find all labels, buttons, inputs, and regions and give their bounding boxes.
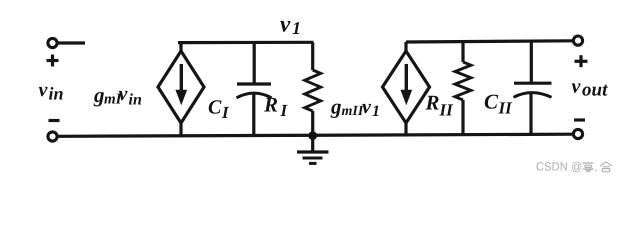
input terminal top-left: [48, 38, 57, 47]
label gmI vin: [93, 83, 142, 109]
wire G1 bottom stub: [179, 122, 182, 136]
label RI: [263, 93, 289, 121]
svg-text:R: R: [263, 93, 278, 117]
svg-text:II: II: [498, 99, 514, 118]
label vout: [572, 76, 609, 101]
wire top rail 2: [406, 41, 573, 42]
svg-text:C: C: [484, 90, 499, 114]
wire bottom rail: [58, 134, 573, 136]
svg-text:g: g: [330, 95, 342, 119]
svg-text:I: I: [221, 103, 230, 122]
controlled source G1 gmI vin: [158, 51, 204, 123]
wire G2 top stub: [404, 42, 407, 52]
controlled source G2 gmII v1: [383, 51, 430, 123]
label vin: [39, 79, 64, 104]
wire top rail 1 (node v1): [178, 41, 314, 44]
svg-text:R: R: [425, 91, 440, 115]
svg-text:g: g: [93, 83, 105, 107]
svg-text:v: v: [119, 83, 129, 105]
svg-text:out: out: [582, 80, 608, 101]
svg-text:II: II: [439, 101, 455, 120]
svg-text:mII: mII: [342, 104, 364, 119]
svg-text:v: v: [572, 76, 582, 98]
svg-text:1: 1: [372, 103, 380, 120]
svg-text:in: in: [49, 84, 64, 104]
watermark CSDN: [536, 160, 612, 174]
capacitor CII: [514, 41, 552, 134]
resistor RII: [455, 42, 471, 135]
svg-text:C: C: [208, 97, 222, 119]
svg-text:in: in: [129, 92, 142, 109]
wire G2 bottom stub: [404, 122, 407, 135]
label RII: [425, 91, 455, 120]
minus sign (output): [574, 118, 585, 121]
wire input top stub: [58, 41, 86, 44]
input terminal bottom-left: [48, 132, 57, 141]
minus sign (input): [49, 119, 60, 122]
wire G1 top stub: [179, 43, 182, 52]
svg-text:CSDN @: CSDN @: [536, 160, 583, 174]
svg-text:v: v: [39, 79, 49, 101]
output terminal bottom-right: [573, 129, 582, 138]
label CII: [484, 90, 513, 118]
ground: [297, 136, 329, 164]
svg-text:I: I: [280, 101, 289, 120]
plus sign (input): [47, 55, 59, 67]
label gmII v1: [330, 95, 380, 121]
svg-text:v: v: [362, 96, 372, 118]
svg-text:v: v: [280, 12, 291, 37]
label v1: [280, 12, 301, 39]
resistor RI: [305, 42, 321, 135]
svg-text:1: 1: [292, 18, 301, 38]
junction node (RI / ground): [308, 131, 317, 140]
output terminal top-right: [573, 36, 582, 45]
capacitor CI: [237, 43, 272, 137]
label CI: [208, 97, 230, 123]
plus sign (output): [575, 55, 588, 67]
